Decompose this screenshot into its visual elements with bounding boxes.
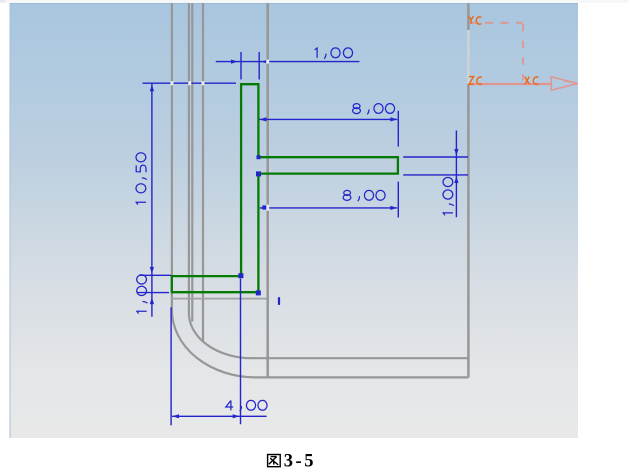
dim 8,00 top: dimension line xyxy=(260,118,398,120)
white gap on V1 at ext crossing xyxy=(171,81,174,85)
WCS arrow cone inner edge xyxy=(564,81,578,87)
text 8,00 top xyxy=(353,104,395,115)
WCS triad xyxy=(469,16,578,90)
dimension layer (blue) xyxy=(137,52,468,425)
dim 10,50: extension line top xyxy=(143,82,237,84)
dim 4,00: dimension line xyxy=(172,415,267,417)
caption 图 3-5 xyxy=(268,452,316,470)
white gap on V5 at 8,00 crossing xyxy=(266,205,269,211)
marker arm bottom-left xyxy=(256,171,261,176)
white gap on V2/V3 at ext crossing xyxy=(188,81,191,85)
dim 10,50 / 1,00 left: dimension line xyxy=(151,83,153,317)
text 4,00 xyxy=(226,400,267,411)
WCS XC arrow cone xyxy=(551,77,577,90)
marker foot top-right xyxy=(238,273,243,278)
canvas top edge shade xyxy=(10,3,579,5)
dim 8,00 top: extension line xyxy=(397,111,399,147)
text 1,00 right rotated xyxy=(443,177,454,215)
body edge H4 hidden flange line xyxy=(172,298,268,300)
WCS dashed YC leg xyxy=(470,22,524,24)
caption hanzi TU xyxy=(268,455,281,467)
sketch point markers xyxy=(238,155,261,295)
text 1,00 top xyxy=(315,48,353,59)
arrow 1,00 right bottom xyxy=(454,176,458,183)
text 1,00 left rotated xyxy=(137,275,148,314)
top window strip xyxy=(0,0,628,3)
arrow 10,50 bottom / 1,00 left top xyxy=(150,267,154,274)
WCS XC axis line xyxy=(470,83,552,85)
arrow 1,00 left bottom xyxy=(150,297,154,304)
body edge V3 xyxy=(191,3,193,322)
arrow 1,00 right top xyxy=(454,149,458,156)
body edge H1 bottom-front xyxy=(252,357,468,359)
WCS label ZC xyxy=(469,77,482,85)
WCS label YC xyxy=(469,16,482,24)
arrow 1,00 top left xyxy=(231,60,238,64)
dim 4,00: extension lines xyxy=(171,279,240,426)
constraint tick xyxy=(278,297,280,305)
body edge V6 right lower xyxy=(467,84,470,377)
arrow 8,00 bottom right xyxy=(390,206,397,210)
dim 10,50: extension line bottom xyxy=(140,274,171,276)
body edge V4 xyxy=(202,3,204,341)
dim 1,00 right: extension lines xyxy=(403,157,468,175)
origin square 8,00 bottom xyxy=(262,205,266,209)
arrow 8,00 top left xyxy=(260,117,267,121)
dim 8,00 bottom: extension line xyxy=(397,182,399,218)
body edge V5 xyxy=(266,3,269,377)
arrow 4,00 right xyxy=(233,414,240,418)
WCS dashed vertical leg xyxy=(522,24,524,81)
arrow 8,00 top right xyxy=(390,117,397,121)
window corner artifact xyxy=(0,0,5,2)
body edge V1 outer-left xyxy=(171,3,173,310)
marker arm top-left xyxy=(257,155,261,159)
body corner arc inner xyxy=(189,313,252,358)
dim 8,00 bottom: dimension line xyxy=(260,207,397,209)
arrow 1,00 top right xyxy=(261,60,268,64)
body edge H2 bottom-back xyxy=(256,376,468,378)
WCS label XC xyxy=(525,77,539,85)
text 10,50 rotated xyxy=(136,153,147,205)
text 8,00 bottom xyxy=(343,190,385,201)
dim 1,00 right: dimension line xyxy=(455,131,457,218)
white gap on V4 at ext crossing xyxy=(202,81,205,85)
body edge V2 xyxy=(188,3,190,313)
sketch profile (green T-shape) xyxy=(172,84,398,292)
dim 1,00 top: extension lines xyxy=(241,52,259,80)
body corner arc outer xyxy=(172,310,256,377)
dim 1,00 top: dimension line xyxy=(216,61,360,63)
dimension texts (stick font) xyxy=(136,48,454,411)
gray body edges xyxy=(172,3,469,377)
body edge V6 faded segment xyxy=(467,30,470,84)
dim 1,00 left: extension line bottom xyxy=(137,292,169,294)
arrow 10,50 top xyxy=(150,85,154,92)
svg-text:3-5: 3-5 xyxy=(284,452,316,470)
body edge V6 right upper xyxy=(467,3,470,30)
arrow 4,00 left xyxy=(172,414,179,418)
white gap on V5 at dim crossing xyxy=(266,60,269,64)
marker foot bottom-right xyxy=(256,290,261,295)
canvas left edge shade xyxy=(9,3,11,438)
